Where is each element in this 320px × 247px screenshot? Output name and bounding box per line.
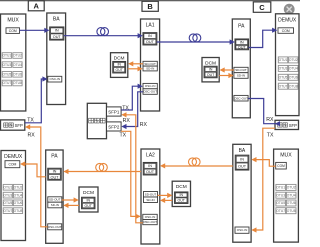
port OSC-IN of LA1 — [143, 83, 157, 88]
channel ports of DEMUX-C — [278, 57, 298, 89]
port OSC-IN of LA2 — [143, 214, 157, 219]
svg-text:OTU4: OTU4 — [289, 67, 298, 71]
port SD-IN of PA-C — [234, 73, 248, 79]
svg-text:DCM: DCM — [83, 190, 94, 196]
port SD-OUT of PA-A — [48, 197, 62, 202]
wire DCM-A OUT to PA-A SD-IN — [63, 203, 79, 208]
dispersion module DCM at PA-C — [202, 58, 219, 82]
label RX of SFP-C — [266, 117, 274, 123]
port COM of MUX-A — [6, 28, 20, 34]
wire LA1 OUT to PA-C IN — [157, 39, 235, 44]
fiber coil B-A — [96, 163, 108, 171]
port OSC-OUT of LA2 — [143, 220, 157, 225]
svg-text:OUT: OUT — [146, 170, 155, 174]
svg-text:SD-OUT: SD-OUT — [144, 62, 156, 66]
svg-text:OSC-OUT: OSC-OUT — [234, 96, 248, 100]
wire LA1 SD-OUT to DCM-B IN — [128, 61, 143, 66]
wire MUX-A COM to BA-A IN — [20, 28, 50, 33]
svg-text:OTU6: OTU6 — [13, 72, 22, 76]
svg-text:IN: IN — [209, 67, 213, 71]
svg-text:OTU7: OTU7 — [276, 209, 285, 213]
wire SFP-C TX to BA-C OSC-IN — [251, 128, 275, 232]
svg-text:OTU2: OTU2 — [287, 186, 296, 190]
node C station label — [253, 2, 270, 12]
svg-text:OTU3: OTU3 — [2, 63, 11, 67]
close icon — [284, 4, 295, 15]
svg-text:OTU7: OTU7 — [2, 81, 11, 85]
svg-text:OTU4: OTU4 — [13, 63, 22, 67]
svg-text:OTU4: OTU4 — [287, 193, 296, 197]
svg-text:SFP: SFP — [15, 123, 23, 128]
port IN/OUT of LA2 — [143, 163, 157, 175]
port OSC-OUT of LA1 — [143, 89, 157, 95]
port COM of DEMUX-C — [278, 28, 294, 34]
multiplexer MUX station A — [1, 14, 26, 111]
svg-text:DEMUX: DEMUX — [4, 154, 23, 160]
svg-text:TX: TX — [120, 133, 127, 139]
svg-text:OTU1: OTU1 — [276, 186, 285, 190]
svg-text:SFP2: SFP2 — [108, 125, 120, 130]
svg-text:OSC-OUT: OSC-OUT — [143, 90, 157, 94]
wire PA-C OSC-OUT to SFP-C RX — [248, 99, 280, 127]
wire SFP-A TX to BA-A OSC-IN — [25, 76, 48, 122]
svg-text:OTU8: OTU8 — [14, 209, 23, 213]
label TX of SFP1 — [122, 105, 129, 111]
dispersion module DCM at PA-A — [79, 187, 98, 212]
svg-text:COM: COM — [9, 29, 17, 33]
svg-text:OSC-OUT: OSC-OUT — [143, 220, 157, 224]
network management card 网管卡 — [87, 103, 106, 138]
port OSC-OUT of PA-C — [234, 95, 248, 101]
label RX of SFP1 — [123, 118, 131, 124]
svg-text:A: A — [33, 2, 39, 11]
svg-text:OTU3: OTU3 — [3, 193, 12, 197]
wire DCM-C OUT to PA-C SD-IN — [219, 73, 233, 78]
port SD-OUT of LA1 — [143, 61, 157, 66]
svg-text:IN: IN — [117, 63, 121, 67]
svg-text:OTU1: OTU1 — [3, 185, 12, 189]
svg-text:IN: IN — [87, 198, 91, 202]
svg-text:OTU2: OTU2 — [13, 54, 22, 58]
svg-text:OTU7: OTU7 — [279, 84, 288, 88]
wire SFP2 TX to LA2 OSC-IN — [121, 131, 141, 219]
channel ports of DEMUX-A — [3, 184, 22, 213]
demultiplexer DEMUX station C — [276, 14, 300, 116]
svg-text:COM: COM — [277, 164, 285, 168]
svg-text:DEMUX: DEMUX — [278, 17, 297, 23]
wire PA-C OUT to DEMUX-C COM — [249, 28, 278, 48]
label TX of SFP-A — [27, 117, 34, 123]
svg-text:IN: IN — [148, 34, 152, 38]
svg-text:LA2: LA2 — [146, 153, 155, 159]
port OSC-IN of BA-C — [235, 227, 249, 233]
port IN/OUT of LA1 — [143, 33, 157, 45]
label TX of SFP-C — [267, 132, 274, 138]
svg-text:PA: PA — [238, 24, 245, 30]
svg-text:OUT: OUT — [238, 46, 247, 50]
svg-text:MUX: MUX — [7, 18, 19, 24]
wire PA-A OSC-OUT to SFP-A RX — [25, 124, 48, 226]
port SD-OUT of PA-C — [234, 67, 248, 72]
svg-text:IN: IN — [240, 40, 244, 44]
svg-text:SD-OUT: SD-OUT — [49, 198, 61, 202]
svg-text:OSC-IN: OSC-IN — [145, 215, 156, 219]
svg-text:IN: IN — [53, 170, 57, 174]
svg-text:IN: IN — [148, 164, 152, 168]
port OSC-IN of BA-A — [48, 76, 62, 82]
line amplifier LA1 station B — [141, 19, 160, 111]
svg-text:COM: COM — [282, 29, 290, 33]
fiber coil B-C — [189, 34, 201, 42]
svg-text:OUT: OUT — [178, 199, 186, 203]
demultiplexer DEMUX station A — [1, 151, 26, 241]
svg-text:OTU8: OTU8 — [289, 84, 298, 88]
svg-text:SD-OUT: SD-OUT — [145, 192, 157, 196]
svg-text:SFP1: SFP1 — [108, 110, 120, 115]
port IN/OUT of BA-C — [235, 155, 249, 170]
svg-text:SD-IN: SD-IN — [146, 67, 154, 71]
svg-text:OTU2: OTU2 — [289, 58, 298, 62]
svg-text:SD-IN: SD-IN — [51, 203, 59, 207]
svg-text:OTU6: OTU6 — [289, 75, 298, 79]
svg-text:DCM: DCM — [176, 184, 187, 190]
wire DCM-B OUT to LA1 SD-IN — [128, 66, 143, 71]
preamplifier PA station A — [46, 150, 63, 243]
svg-text:OTU4: OTU4 — [14, 193, 23, 197]
svg-text:COM: COM — [8, 162, 16, 166]
preamplifier PA station C — [232, 19, 250, 118]
svg-text:OTU3: OTU3 — [279, 67, 288, 71]
svg-text:OSC-IN: OSC-IN — [145, 84, 156, 88]
svg-text:TX: TX — [267, 132, 274, 138]
svg-text:RX: RX — [266, 117, 274, 123]
svg-text:OTU7: OTU7 — [3, 209, 12, 213]
label RX of SFP-A — [28, 133, 36, 139]
wire top frame line — [0, 0, 300, 2]
svg-text:OTU1: OTU1 — [2, 54, 11, 58]
svg-text:B: B — [147, 2, 153, 11]
label TX of SFP2 — [120, 133, 127, 139]
svg-text:PA: PA — [51, 154, 58, 160]
port SD-OUT of LA2 — [144, 192, 158, 198]
OSC SFP module 网管SFP station C — [275, 120, 299, 129]
svg-text:BA: BA — [53, 17, 60, 23]
wire PA-A OUT to DEMUX-A COM — [20, 161, 46, 176]
svg-text:IN: IN — [180, 193, 184, 197]
svg-text:OSC-OUT: OSC-OUT — [48, 225, 62, 229]
port COM of DEMUX-A — [5, 161, 20, 168]
svg-text:OTU5: OTU5 — [2, 72, 11, 76]
svg-text:OTU5: OTU5 — [276, 201, 285, 205]
svg-text:OTU8: OTU8 — [287, 209, 296, 213]
booster amplifier BA station C — [233, 144, 251, 242]
dispersion module DCM at LA1 — [111, 53, 128, 78]
label RX of SFP2 — [140, 122, 148, 128]
svg-text:RX: RX — [123, 118, 131, 124]
svg-text:BA: BA — [239, 148, 246, 154]
node B station label — [142, 1, 158, 11]
svg-text:SFP: SFP — [289, 123, 297, 128]
svg-text:SD-IN: SD-IN — [146, 198, 154, 202]
svg-text:OUT: OUT — [50, 175, 59, 179]
node A station label — [28, 1, 44, 11]
svg-text:OTU2: OTU2 — [14, 185, 23, 189]
port SFP1 of NM card — [107, 107, 122, 116]
svg-text:OSC-IN: OSC-IN — [50, 77, 61, 81]
svg-text:RX: RX — [140, 122, 148, 128]
wire BA-C OUT to LA2 IN — [160, 163, 233, 168]
svg-text:C: C — [259, 3, 265, 12]
multiplexer MUX station C — [274, 149, 299, 242]
svg-text:OTU8: OTU8 — [13, 81, 22, 85]
svg-text:IN: IN — [240, 157, 244, 161]
wire LA1 OSC-OUT to SFP2 RX — [121, 92, 143, 129]
svg-text:OSC-IN: OSC-IN — [237, 228, 248, 232]
svg-text:DCM: DCM — [205, 60, 216, 66]
wire DCM-B2 OUT to LA2 SD-IN — [160, 198, 172, 203]
svg-text:IN: IN — [55, 29, 59, 33]
wire MUX-C COM to BA-C IN — [251, 157, 275, 166]
svg-text:SD-OUT: SD-OUT — [235, 68, 247, 72]
svg-text:OUT: OUT — [207, 73, 215, 77]
wire LA2 OUT to PA-A IN — [63, 169, 141, 174]
wire SFP1 TX to LA1 OSC-IN — [121, 84, 143, 110]
port SD-IN of PA-A — [48, 202, 62, 208]
line amplifier LA2 station B — [141, 149, 160, 244]
svg-text:OTU1: OTU1 — [279, 58, 288, 62]
svg-text:MUX: MUX — [280, 153, 292, 159]
fiber coil C-B — [189, 158, 201, 166]
svg-text:OTU6: OTU6 — [287, 201, 296, 205]
port SFP2 of NM card — [107, 122, 122, 131]
svg-text:SD-IN: SD-IN — [237, 74, 245, 78]
fiber coil A-B — [97, 28, 109, 36]
svg-text:OUT: OUT — [146, 40, 155, 44]
OSC SFP module 网管SFP station A — [1, 120, 25, 130]
svg-text:RX: RX — [28, 133, 36, 139]
svg-text:OTU5: OTU5 — [3, 201, 12, 205]
svg-text:OUT: OUT — [116, 68, 124, 72]
port OSC-OUT of PA-A — [48, 224, 62, 230]
dispersion module DCM at LA2 — [172, 181, 190, 206]
svg-text:OUT: OUT — [85, 204, 93, 208]
wire LA2 SD-OUT to DCM-B2 IN — [158, 193, 173, 198]
wire LA2 OSC-OUT to SFP1 RX — [121, 112, 143, 223]
port IN/OUT of BA-A — [50, 27, 64, 40]
port IN/OUT of PA-A — [48, 168, 61, 180]
svg-text:OTU3: OTU3 — [276, 193, 285, 197]
svg-text:OUT: OUT — [238, 165, 247, 169]
port SD-IN of LA2 — [144, 197, 158, 203]
channel ports of MUX-A — [2, 53, 22, 86]
port SD-IN of LA1 — [143, 66, 157, 71]
svg-text:LA1: LA1 — [146, 23, 155, 29]
wire BA-A OUT to LA1 IN — [64, 33, 143, 38]
svg-text:OTU6: OTU6 — [14, 201, 23, 205]
port COM of MUX-C — [276, 162, 287, 169]
svg-text:OUT: OUT — [53, 35, 62, 39]
booster amplifier BA station A — [47, 13, 66, 105]
channel ports of MUX-C — [276, 184, 296, 213]
wire PA-A SD-OUT to DCM-A IN — [62, 197, 79, 202]
port IN/OUT of PA-C — [235, 39, 249, 50]
svg-text:OTU5: OTU5 — [279, 75, 288, 79]
svg-text:DCM: DCM — [114, 56, 125, 62]
wire PA-C SD-OUT to DCM-C IN — [220, 67, 234, 72]
